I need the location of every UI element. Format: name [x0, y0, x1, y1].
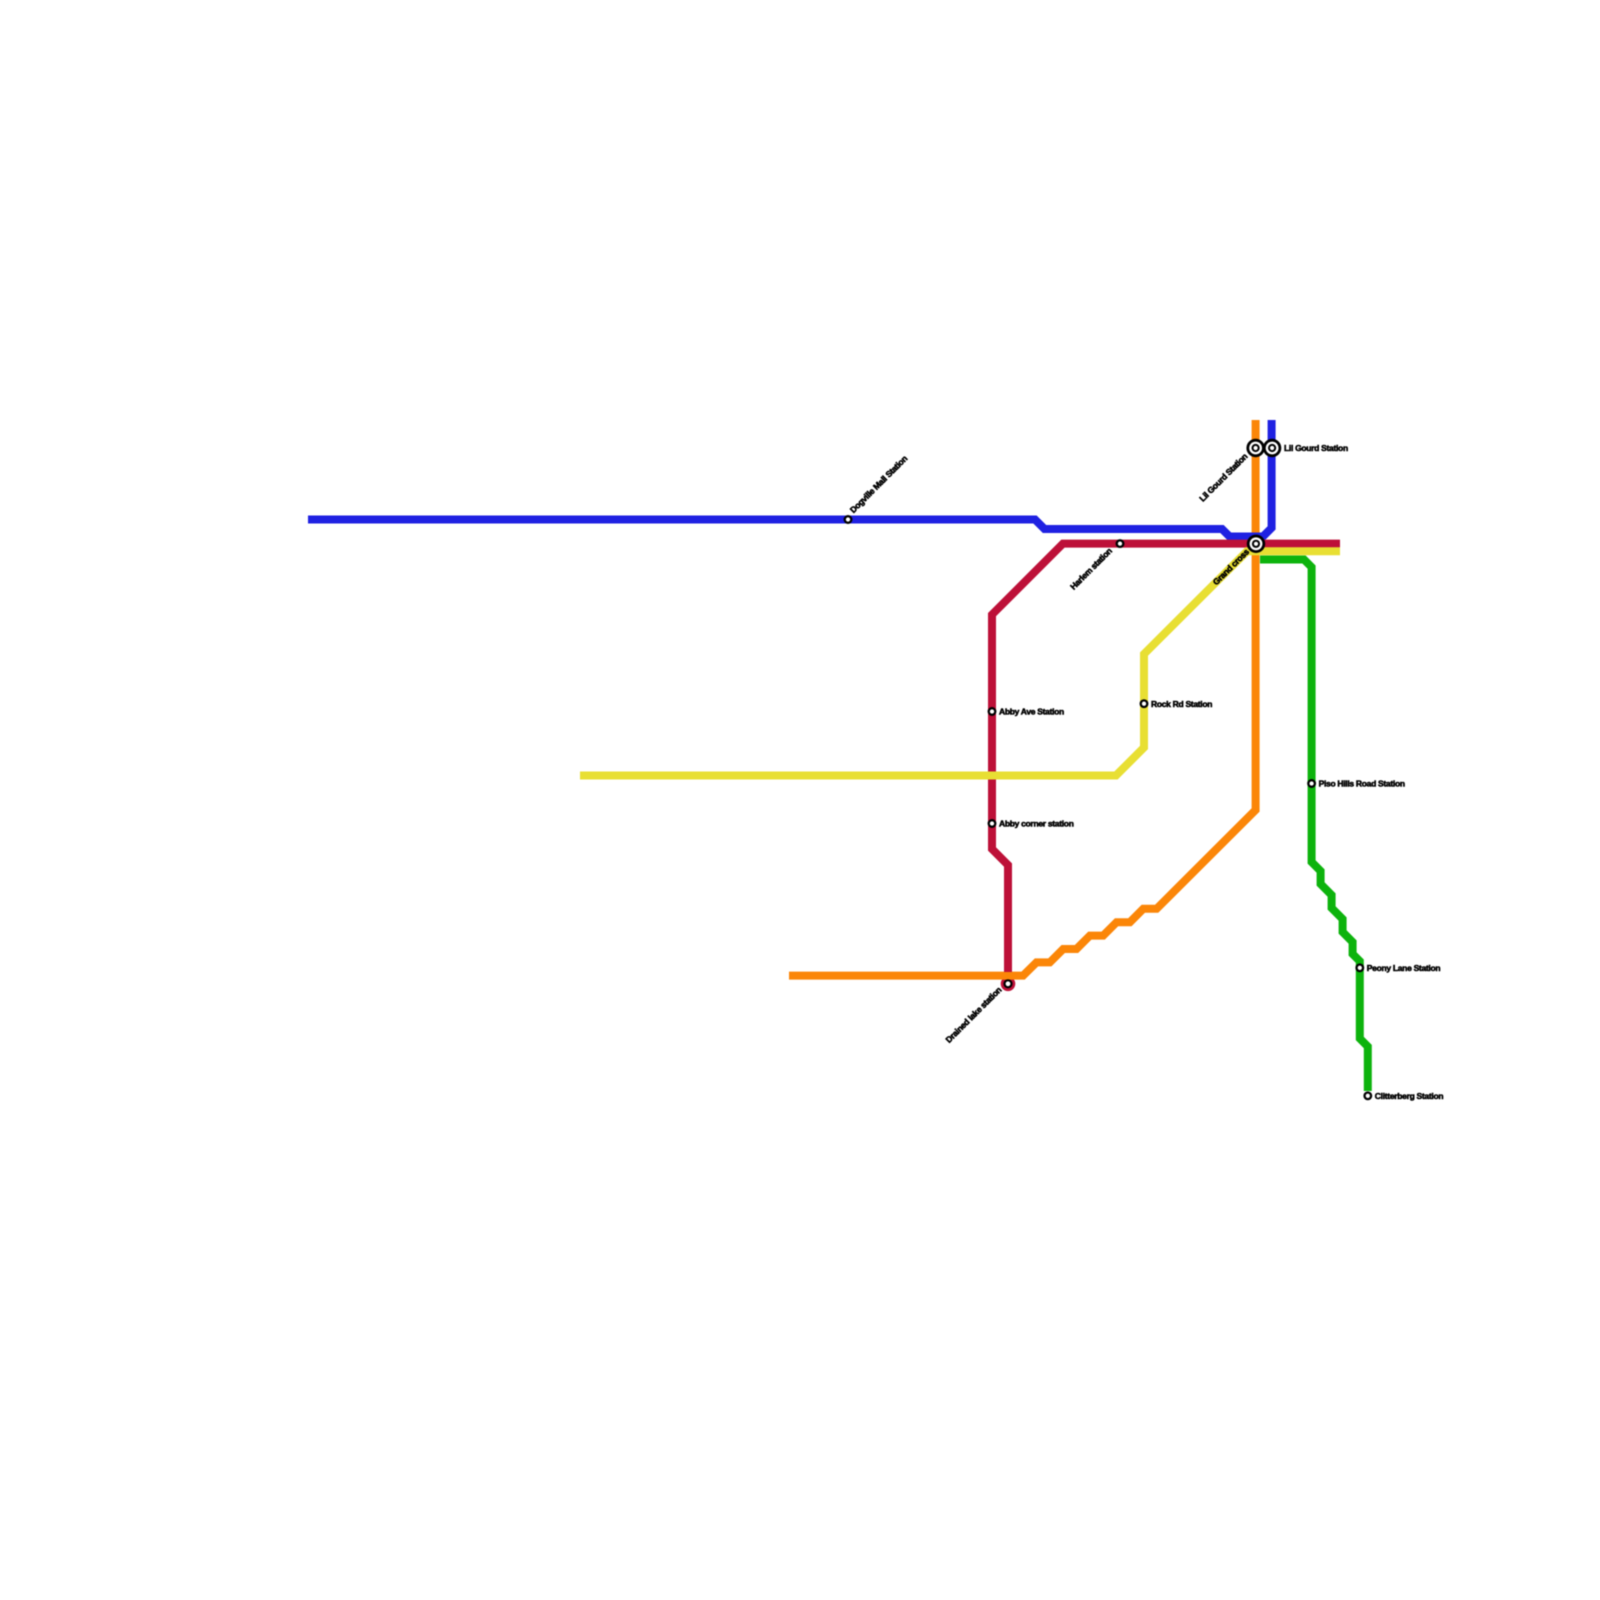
orange line — [789, 420, 1256, 976]
terminal station: Clitterberg Station — [1365, 1093, 1372, 1100]
station: Rock Rd Station — [1141, 700, 1148, 707]
svg-text:Abby Ave Station: Abby Ave Station — [999, 707, 1064, 717]
station: Abby corner station — [989, 820, 996, 827]
station: Dogville Mall Station — [845, 516, 852, 523]
interchange station: Grand cross — [1247, 535, 1265, 553]
station: Peony Lane Station — [1357, 965, 1364, 972]
interchange station: Lil Gourd Station (blue ring) — [1263, 439, 1281, 457]
blue line — [308, 420, 1272, 537]
svg-text:Piso Hills Road Station: Piso Hills Road Station — [1319, 779, 1405, 789]
interchange station: Lil Gourd Station (orange ring) — [1246, 439, 1264, 457]
station: Abby Ave Station — [989, 708, 996, 715]
yellow line — [580, 551, 1340, 775]
crimson line — [992, 544, 1340, 972]
station: Harlem station — [1117, 540, 1124, 547]
svg-text:Abby corner station: Abby corner station — [999, 819, 1074, 829]
svg-text:Rock Rd Station: Rock Rd Station — [1151, 699, 1212, 709]
green line — [1260, 560, 1368, 1092]
svg-text:Clitterberg Station: Clitterberg Station — [1375, 1091, 1444, 1101]
svg-text:Peony Lane Station: Peony Lane Station — [1367, 963, 1441, 973]
svg-text:Lil Gourd Station: Lil Gourd Station — [1284, 443, 1348, 453]
terminal station: Drained lake station (black ring) — [1003, 979, 1012, 988]
terminal station: Drained lake station (crimson disc) — [1001, 977, 1016, 992]
station: Piso Hills Road Station — [1308, 780, 1315, 787]
